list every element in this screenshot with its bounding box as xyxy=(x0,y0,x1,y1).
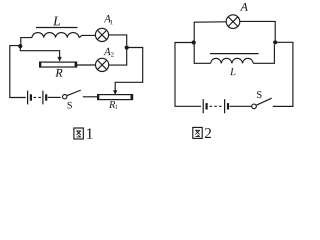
wire node A to R wiper xyxy=(20,46,59,57)
lamp A1 (bulb) xyxy=(95,28,108,41)
value label A1 (lamp) xyxy=(104,15,113,24)
wire switch contact to right rail (fig.2) xyxy=(273,105,294,107)
dashed link between cells (fig.2) xyxy=(210,105,222,107)
lamp A2 (bulb) xyxy=(96,58,109,71)
iron core bar of L (fig.1) xyxy=(36,27,78,29)
value label L (fig.1 inductor) xyxy=(53,17,60,26)
battery cell 1 (fig.1) xyxy=(28,91,31,105)
wire lamp A2 to resistor R xyxy=(77,64,96,66)
value label A (lamp fig.2) xyxy=(240,3,248,11)
wire coil to lamp A1 xyxy=(79,35,95,37)
caption numeral 2 (fig.2) xyxy=(205,128,211,138)
battery cell 1 (fig.2) xyxy=(203,99,206,113)
lamp A (bulb, fig.2) xyxy=(226,15,240,29)
node D (right junction, fig.2) xyxy=(273,40,277,44)
node A (left junction, fig.1) xyxy=(18,44,22,48)
dashed link between cells (fig.1) xyxy=(34,96,42,98)
wire cell 2 to switch S xyxy=(48,96,61,98)
wire switch to rheostat R1 xyxy=(83,96,98,98)
value label R (resistor) xyxy=(55,69,62,77)
caption glyph 图 (fig.1) xyxy=(74,128,83,139)
inductor L (fig.1 coil) xyxy=(32,33,79,38)
wiper arrowhead onto R1 xyxy=(113,90,117,95)
wire node C up and right to lamp A xyxy=(194,22,226,43)
wire node D to right rail and down xyxy=(273,42,293,106)
iron core bar of L (fig.2) xyxy=(210,53,259,55)
wire cell 2 to switch S (fig.2) xyxy=(230,105,252,107)
value label A2 (lamp) xyxy=(103,48,113,57)
wiper arrowhead onto R xyxy=(58,57,62,62)
resistor R (slide rheostat body) xyxy=(39,62,76,68)
wire node B right and down to rheostat R1 wiper xyxy=(115,48,143,91)
wire node B down to lamp A2 xyxy=(109,48,127,66)
caption numeral 1 (fig.1) xyxy=(87,128,93,138)
value label S (switch fig.2) xyxy=(257,91,262,98)
wire node C to left rail and down to battery xyxy=(175,43,201,107)
value label S (switch fig.1) xyxy=(68,102,72,109)
switch S (fig.1) xyxy=(62,90,80,99)
wire lamp A1 to node B xyxy=(109,35,127,46)
wire node A up to inductor row xyxy=(21,38,32,47)
wire node A to left rail and down to battery xyxy=(10,46,26,98)
node B (right junction, fig.1) xyxy=(125,46,129,50)
caption glyph 图 (fig.2) xyxy=(193,127,202,138)
switch S (fig.2) xyxy=(252,98,272,109)
wire node C down to inductor (left lead) xyxy=(194,43,210,64)
value label L (fig.2 inductor) xyxy=(230,68,236,75)
battery cell 2 (fig.1) xyxy=(43,91,46,105)
rheostat R1 body xyxy=(97,94,132,100)
wire lamp A to node D xyxy=(240,21,275,40)
node C (left junction, fig.2) xyxy=(192,40,196,44)
inductor L (fig.2 coil) xyxy=(211,58,254,63)
wire inductor right lead up to node D xyxy=(253,44,274,63)
value label R1 (rheostat) xyxy=(109,101,117,109)
battery cell 2 (fig.2) xyxy=(225,99,228,113)
